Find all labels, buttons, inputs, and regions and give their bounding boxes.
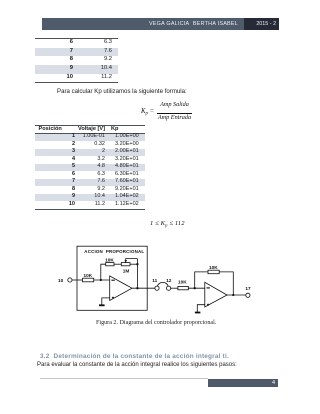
jumper arc 11-12 [157,282,168,286]
op-amp U2 inverting input marker [207,287,210,289]
vertical feedback return [136,259,138,289]
circuit figure [55,236,260,320]
footer line [40,378,208,379]
output wire to terminal 11 [132,287,155,289]
potentiometer 1M [121,263,130,266]
wire fb2 to output [219,272,233,295]
header texts [39,125,62,133]
col 3 values [115,133,138,208]
resistor 10K series [178,286,188,289]
ground 1 [99,304,105,306]
svg-text:17: 17 [245,286,251,291]
body line [37,362,237,368]
feedback resistor 10K [106,263,114,266]
svg-text:10K: 10K [84,273,93,278]
svg-text:12: 12 [166,278,172,283]
svg-text:10K: 10K [209,265,218,270]
terminal 17 [246,293,250,297]
feedback 2 wire [195,272,208,288]
dashed action box [77,246,147,310]
svg-text:10K: 10K [178,280,187,285]
op-amp U2 non-inverting input marker [207,304,209,306]
pot wiper wire [126,259,138,263]
figure caption [96,320,221,326]
paragraph [57,88,187,95]
output node 2 [232,294,234,296]
terminal 10 [68,278,72,282]
feedback resistor 10K 2 [208,270,219,274]
feedback wire up [101,264,106,280]
pot wiper arrowhead [125,260,127,263]
svg-text:10: 10 [58,278,64,283]
wire term10 to R1 [72,279,83,281]
wire R3 to opamp2 [188,287,205,289]
svg-text:1M: 1M [123,269,130,274]
wire between resistor and pot [114,263,121,265]
wire R1 to opamp [94,279,110,281]
wire term12 to R3 [171,287,178,289]
svg-text:10K: 10K [105,257,114,262]
table 2 [35,125,145,210]
node pot/wiper [136,263,138,265]
op-amp U1 inverting input marker [111,279,114,281]
footer page bar [208,379,279,388]
op-amp U1 non-inverting input marker [112,297,114,299]
output wire to terminal 17 [227,294,246,296]
formula Kp = AmpSalida/AmpEntrada [140,100,142,102]
node at inverting input [100,279,102,281]
wire pot right to vertical [130,263,137,265]
col 1 values [35,133,75,208]
node inverting 2 [194,287,196,289]
col 2 values [35,133,105,208]
header bar: name cell [42,18,244,30]
inequality formula [150,220,185,227]
table 1 (rows 6-10) [35,38,118,83]
op-amp U2 [205,282,227,307]
terminal 12 [167,286,171,290]
header bar: year cell [244,18,279,30]
svg-text:11: 11 [152,278,157,283]
svg-text:ACCION PROPORCIONAL: ACCION PROPORCIONAL [84,249,144,254]
section heading 3.2 [40,353,229,360]
output node [136,287,138,289]
plus input wire [102,298,110,305]
terminal 11 [155,286,159,290]
op-amp U1 [110,276,132,301]
resistor 10K input [83,278,94,282]
ground 2 [195,312,201,314]
plus input wire 2 [197,305,205,312]
